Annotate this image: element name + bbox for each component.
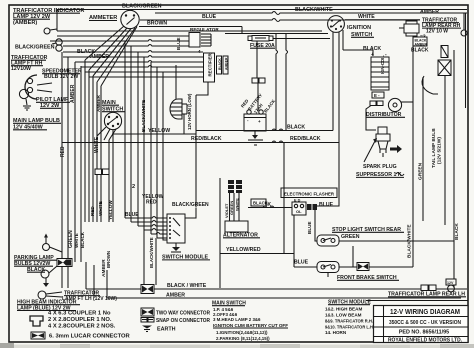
svg-text:BLUE: BLUE: [176, 37, 181, 50]
wire vertical bus 5: [84, 60, 86, 222]
svg-text:PED NO. 8656/11/95: PED NO. 8656/11/95: [399, 330, 449, 336]
spark plug P1: [364, 127, 402, 162]
wire right vertical 2: [422, 77, 424, 221]
wire fan 2: [57, 35, 200, 37]
wire yellow/red: [220, 253, 294, 255]
legend switch module rows: [325, 307, 374, 336]
label BLACK boxed right of alternator: [251, 199, 268, 206]
legend ignition rows: [216, 330, 270, 341]
trafficator indicator lamp symbol: [44, 10, 57, 35]
wire vertical battery 2: [276, 34, 278, 131]
wire into ignition: [225, 33, 328, 35]
ammeter leads: [85, 26, 137, 86]
svg-text:2: 2: [132, 184, 135, 190]
ground below battery: [248, 131, 263, 145]
svg-text:BLUE: BLUE: [319, 202, 334, 208]
wire BLUE: [140, 14, 420, 22]
svg-text:OL: OL: [296, 209, 302, 214]
svg-text:RED: RED: [90, 206, 95, 216]
svg-text:RED: RED: [146, 200, 157, 206]
wire vertical bus 6: [88, 70, 90, 222]
wire RED/BLACK bus: [62, 136, 339, 143]
label parking lamp: [14, 255, 57, 273]
svg-text:1&2. HIGH BEAM: 1&2. HIGH BEAM: [325, 307, 362, 312]
distributor D1: [366, 98, 405, 118]
ground below switch module: [171, 243, 181, 252]
svg-text:12V10W: 12V10W: [11, 66, 31, 72]
horn stem wire: [175, 65, 177, 99]
svg-text:IGNITION: IGNITION: [347, 25, 371, 31]
lamp RH circle: [461, 30, 467, 36]
svg-text:BLACK / WHITE: BLACK / WHITE: [167, 283, 207, 289]
wire vertical mid 1: [124, 41, 126, 218]
label alternator: [223, 233, 260, 239]
rectifier side labels: [217, 56, 229, 74]
trafficator lamp rear RH symbol: [399, 21, 419, 36]
svg-text:TWO WAY CONNECTOR: TWO WAY CONNECTOR: [156, 311, 210, 317]
legend coupler icon: [30, 316, 43, 326]
svg-text:12V: 12V: [447, 281, 454, 285]
wire BROWN: [139, 21, 242, 34]
svg-text:BLACK: BLACK: [454, 223, 460, 240]
wire BLACK/WHITE top: [155, 7, 467, 15]
svg-text:WHITE: WHITE: [74, 233, 79, 248]
svg-text:350CC & 500 CC - UK VERSION: 350CC & 500 CC - UK VERSION: [389, 320, 461, 326]
svg-text:2.PARKING (8,11(12,4,15)): 2.PARKING (8,11(12,4,15)): [216, 336, 270, 341]
svg-text:BROWN: BROWN: [147, 21, 167, 27]
label trafficator lamp FT LH: [62, 291, 117, 303]
legend main switch rows: [213, 307, 261, 322]
svg-text:AMBER: AMBER: [96, 94, 101, 112]
svg-text:ELECTRONIC FLASHER: ELECTRONIC FLASHER: [284, 192, 334, 198]
label speedometer bulb: [42, 69, 82, 81]
svg-text:WHITE: WHITE: [235, 198, 240, 211]
svg-text:AMBER: AMBER: [420, 9, 439, 15]
rectifier U2: [196, 52, 215, 95]
wire right vertical 4: [453, 50, 455, 288]
wire junction verticals: [195, 95, 197, 207]
wire vertical bus 1: [61, 52, 63, 288]
svg-text:4 X 2.8COUPLER 2 NOS.: 4 X 2.8COUPLER 2 NOS.: [48, 324, 116, 330]
lucar connector bowtie: [357, 263, 369, 271]
snap connector rear LH: [421, 285, 436, 291]
speedometer housing: [25, 75, 52, 99]
ignition switch S2: [328, 16, 345, 33]
svg-text:6. 3mm LUCAR CONNECTOR: 6. 3mm LUCAR CONNECTOR: [49, 334, 131, 340]
label trafficator indicator lamp: [13, 8, 84, 26]
svg-text:AMBER: AMBER: [70, 84, 76, 103]
wire coil to plug: [366, 106, 376, 131]
svg-text:BLUE: BLUE: [125, 212, 139, 218]
wire fan 8: [81, 66, 203, 68]
snap connector battery: [252, 78, 265, 83]
svg-text:GREEN: GREEN: [341, 234, 360, 240]
wire vertical bus 8: [96, 82, 98, 222]
coil E terminal box: [372, 92, 384, 98]
svg-text:12V 10 W: 12V 10 W: [426, 29, 448, 35]
legend ignition cut off title: [213, 323, 288, 328]
parking lamp bulb: [41, 266, 57, 278]
svg-text:+: +: [371, 52, 374, 58]
alternator connector blocks: [228, 180, 242, 193]
label front brake switch: [337, 275, 399, 281]
label main switch: [102, 100, 125, 113]
wire fan 6: [63, 56, 203, 58]
stop light switch S3: [317, 235, 339, 246]
wire vertical bus 2: [67, 57, 69, 288]
svg-text:WHITE: WHITE: [94, 136, 100, 153]
svg-text:4: 4: [198, 49, 201, 54]
label stop light switch rear: [332, 227, 404, 233]
svg-text:1&3. LOW BEAM: 1&3. LOW BEAM: [325, 313, 362, 318]
legend snap on connector icon: [141, 318, 154, 323]
label spark plug suppressor: [356, 164, 404, 178]
wire stop switch right: [339, 240, 454, 242]
parking lamp bulb upper: [43, 234, 63, 253]
main switch S1: [104, 112, 121, 129]
wire vertical mid 5: [150, 62, 152, 234]
legend main switch title: [212, 301, 246, 307]
svg-text:REGULATOR: REGULATOR: [190, 27, 219, 32]
wire BLACK bus: [196, 125, 333, 131]
svg-text:TAIL LAMP BULB: TAIL LAMP BULB: [431, 128, 437, 168]
wire right vertical 1: [412, 36, 414, 267]
svg-text:1.IGNITION(2,4&8(11,12)): 1.IGNITION(2,4&8(11,12)): [216, 330, 268, 335]
svg-text:9&10. TRAFFICATOR L.H.: 9&10. TRAFFICATOR L.H.: [325, 325, 374, 330]
wire brake switch to connector: [339, 266, 413, 268]
wire long vertical mid-low: [219, 178, 221, 288]
alternator lead wires: [230, 193, 240, 221]
connector at flasher: [307, 204, 317, 210]
two way connector at parking lamp: [57, 259, 72, 267]
svg-text:IGNITION CUM BATTERY CUT OFF: IGNITION CUM BATTERY CUT OFF: [213, 323, 288, 328]
rear LH lamp: [446, 279, 456, 292]
wire vertical bus 7: [92, 76, 94, 222]
label ignition switch: [347, 25, 374, 38]
switch module box M1: [167, 214, 185, 243]
label high beam indicator: [17, 300, 80, 312]
svg-text:RECTIFIER: RECTIFIER: [208, 52, 213, 76]
wire vertical bus 4: [80, 66, 82, 262]
svg-text:BLACK/WHITE: BLACK/WHITE: [149, 237, 154, 268]
snap connector below main switch: [95, 169, 109, 175]
wire vertical mid 7: [162, 72, 164, 218]
wire right vertical 3: [444, 75, 446, 225]
svg-text:BULB 12V 2W: BULB 12V 2W: [44, 74, 78, 80]
svg-text:E D: E D: [294, 199, 301, 203]
horn H1: [170, 99, 187, 134]
label electronic flasher boxed: [281, 188, 337, 198]
wire vertical bus 3: [74, 62, 76, 262]
wire YELLOW: [112, 128, 196, 134]
flasher unit FL1: [292, 199, 306, 216]
label main lamp bulb: [13, 118, 61, 131]
fuse F1 20A: [248, 36, 275, 50]
wire vertical mid 4: [143, 57, 145, 230]
svg-text:RED: RED: [60, 146, 66, 157]
label BLACK/AMBER boxed: [413, 37, 427, 47]
wire vertical bus 9: [100, 86, 102, 222]
svg-text:12V HORN (LOW): 12V HORN (LOW): [187, 93, 192, 130]
svg-text:BLUE: BLUE: [294, 260, 309, 266]
regulator U1: [189, 27, 219, 47]
svg-text:EARTH: EARTH: [157, 327, 176, 333]
wire fuse to battery 1: [256, 41, 258, 78]
ignition switch leads: [333, 30, 373, 143]
svg-text:2 X 2.8COUPLER 1 NO.: 2 X 2.8COUPLER 1 NO.: [48, 317, 112, 323]
svg-text:BLACK/WHITE: BLACK/WHITE: [141, 100, 146, 132]
svg-text:14. HORN: 14. HORN: [325, 330, 347, 335]
svg-text:RED/BLACK: RED/BLACK: [290, 136, 321, 142]
battery B1: [244, 110, 266, 131]
wire fan 3: [50, 40, 189, 42]
svg-text:8&9. TRAFFICATOR R.H.: 8&9. TRAFFICATOR R.H.: [325, 319, 373, 324]
wires into switch module: [125, 217, 167, 241]
alternator body: [225, 221, 248, 232]
legend lucar bowtie icon: [31, 332, 45, 339]
label trafficator lamp rear RH: [422, 18, 461, 35]
relay X box: [438, 60, 451, 76]
svg-text:SPARK PLUG: SPARK PLUG: [363, 164, 397, 170]
wire bottom bus amber: [107, 293, 461, 299]
wire vertical mid 6: [156, 67, 158, 238]
wire vertical mid 3: [137, 52, 139, 226]
svg-text:GREEN: GREEN: [418, 162, 424, 180]
svg-text:+: +: [258, 119, 261, 124]
svg-text:BLACK/GREEN: BLACK/GREEN: [15, 45, 55, 51]
svg-text:AMBER: AMBER: [101, 259, 107, 277]
ignition coil T1: [371, 52, 389, 90]
main switch leads: [97, 127, 116, 222]
svg-text:BLUE: BLUE: [202, 14, 217, 20]
ammeter A1: [89, 10, 139, 28]
wire into front brake switch: [294, 266, 317, 268]
wire distributor to vertical: [401, 101, 413, 103]
wire BLACK/GREEN top bus: [57, 4, 467, 10]
wire right frame vertical: [465, 13, 467, 108]
wire vertical to front brake: [283, 143, 285, 254]
svg-text:WHITE: WHITE: [98, 201, 103, 216]
wire into flasher: [248, 206, 292, 208]
small box terminal: [441, 46, 448, 58]
pilot lamp: [19, 89, 70, 109]
svg-text:BLACK/GREEN: BLACK/GREEN: [122, 4, 162, 10]
svg-text:GREEN: GREEN: [229, 201, 234, 215]
legend two way connector icon: [141, 308, 154, 316]
svg-text:BLACK: BLACK: [253, 201, 268, 206]
svg-text:12-V WIRING DIAGRAM: 12-V WIRING DIAGRAM: [390, 307, 460, 316]
svg-text:BLACK: BLACK: [287, 125, 305, 131]
two way connector mid bottom: [141, 285, 154, 294]
svg-text:SNAP ON CONNECTOR: SNAP ON CONNECTOR: [156, 318, 210, 324]
trafficator FT LH lamp: [38, 291, 62, 299]
label switch module: [162, 255, 210, 261]
legend switch module title: [328, 300, 371, 306]
wire WHITE: [345, 14, 420, 20]
wire flasher to stop switch: [315, 210, 317, 241]
wire right vertical 5: [422, 76, 438, 94]
front brake switch S4: [317, 262, 339, 278]
wire black/green down: [185, 208, 196, 219]
wire fan 9: [85, 71, 203, 73]
wire bottom bus black/white: [86, 283, 467, 289]
svg-text:(12V 5/21W): (12V 5/21W): [437, 137, 443, 164]
svg-text:YELLOW/RED: YELLOW/RED: [226, 247, 261, 253]
svg-text:E -: E -: [374, 93, 380, 98]
wire fan 5: [63, 51, 203, 53]
snap connector below coil: [370, 101, 383, 106]
svg-text:3 M.HEAD LAMP 2 3&6: 3 M.HEAD LAMP 2 3&6: [213, 317, 261, 322]
svg-text:ROYAL ENFIELD MOTORS LTD.: ROYAL ENFIELD MOTORS LTD.: [388, 337, 462, 343]
svg-text:AMBER: AMBER: [415, 43, 428, 47]
svg-text:YELLOW: YELLOW: [148, 128, 170, 134]
wire fan 4: [63, 45, 189, 47]
legend earth icon: [142, 326, 152, 332]
wire vertical mid 2: [130, 46, 132, 222]
wire verticals to bottom bus: [86, 262, 107, 298]
svg-text:BLACK: BLACK: [80, 231, 85, 248]
legend divider line: [366, 300, 468, 302]
svg-text:BLACK: BLACK: [218, 58, 222, 70]
wire fan 1: [57, 30, 322, 32]
svg-text:(AMBER): (AMBER): [13, 20, 37, 26]
svg-text:WHITE: WHITE: [358, 14, 375, 20]
svg-text:BLACK/WHITE: BLACK/WHITE: [295, 7, 333, 13]
svg-text:BLACK/GREEN: BLACK/GREEN: [172, 202, 209, 208]
wire vertical into bowtie: [352, 246, 354, 267]
ground at parking lamp: [43, 278, 49, 287]
svg-text:BLACK: BLACK: [411, 48, 429, 54]
label trafficator lamp FT RH: [11, 55, 48, 72]
title block frame: [374, 306, 469, 343]
wire connector to battery: [257, 83, 259, 111]
wire fan 7: [75, 61, 203, 63]
ground below pilot lamp: [23, 99, 31, 110]
svg-text:AMBER: AMBER: [225, 57, 229, 70]
wire fan 10: [89, 76, 203, 78]
svg-text:4 X 6.3 COUPLER 1 No: 4 X 6.3 COUPLER 1 No: [48, 311, 111, 317]
trafficator lamp FT RH symbol: [52, 39, 62, 51]
label trafficator lamp rear LH: [388, 292, 466, 298]
svg-text:BLUE: BLUE: [307, 221, 312, 234]
